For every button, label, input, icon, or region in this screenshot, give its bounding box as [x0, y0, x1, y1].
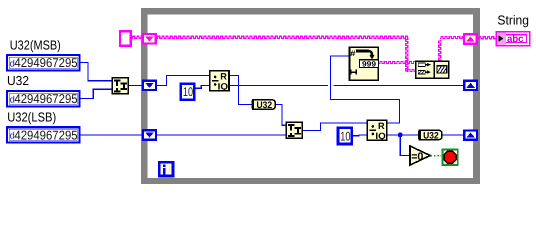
- svg-text:R: R: [378, 121, 385, 131]
- svg-text:=0: =0: [411, 151, 423, 163]
- boolean wire equal-to-zero to stop terminal: [431, 155, 442, 157]
- equal to zero node: [410, 146, 430, 165]
- wire string right shift register to String indicator: [478, 37, 496, 39]
- wire junction down to equal-to-zero input: [400, 135, 410, 156]
- String indicator terminal abc: [496, 32, 529, 46]
- svg-text:U32: U32: [257, 99, 273, 110]
- U32 conversion node 1: [252, 99, 276, 110]
- right shift register U32 low: [464, 130, 477, 139]
- wire string concatenate output up and right to right shift register: [439, 37, 463, 61]
- junction dot on quotient wire: [398, 132, 403, 137]
- svg-text:10: 10: [340, 129, 350, 143]
- constant 10 (first): [181, 84, 195, 100]
- quotient and remainder node 2: [367, 120, 386, 141]
- wire U32 conversion 2 to right shift register 2: [442, 134, 463, 136]
- empty string constant: [120, 31, 131, 45]
- wire quotient remainder 1 remainder output down to U32 conversion 1: [229, 75, 251, 104]
- numeric control U32(MSB) value 4294967295: [7, 55, 79, 70]
- U32 conversion node 2: [418, 130, 442, 141]
- wire left shift register 1 to quotient remainder 1 x input: [157, 75, 209, 85]
- right shift register string (magenta): [464, 34, 477, 43]
- concatenate strings node: [416, 61, 449, 79]
- wire string vertical down to concatenate input 2: [406, 38, 416, 71]
- svg-text:U32: U32: [7, 73, 29, 88]
- svg-text:R: R: [220, 71, 227, 81]
- svg-text:#: #: [350, 49, 356, 58]
- right shift register U32 high: [464, 81, 477, 90]
- iteration terminal i: [159, 162, 173, 176]
- wire string left shift register across top: [157, 36, 409, 38]
- wire U32(MSB) control to join numbers input 1: [81, 63, 112, 81]
- svg-text:4294967295: 4294967295: [14, 128, 77, 142]
- svg-text:U32: U32: [423, 130, 439, 141]
- wire left shift register 2 to join numbers 2 input 2: [157, 134, 285, 136]
- wire U32 conversion 1 to join numbers 2 input 1: [275, 105, 285, 126]
- wire constant 10 2 to quotient remainder 2 y input: [353, 134, 367, 137]
- wire string 999 output to concatenate input 1: [379, 62, 415, 64]
- label U32(LSB): [7, 110, 56, 125]
- svg-text:IQ: IQ: [218, 81, 228, 91]
- number to decimal string node: [350, 47, 379, 80]
- join numbers node 1: [112, 78, 128, 94]
- wire join numbers output to left shift register 1: [129, 85, 142, 87]
- constant 10 (second): [338, 128, 352, 144]
- while loop border: [141, 8, 480, 184]
- label U32: [7, 73, 29, 88]
- label U32(MSB): [10, 37, 61, 52]
- numeric control U32(LSB) value 4294967295: [7, 127, 79, 142]
- svg-text:4294967295: 4294967295: [14, 56, 77, 70]
- svg-text:U32(LSB): U32(LSB): [7, 110, 56, 125]
- wire join numbers 2 output to quotient remainder 2 x input: [303, 123, 367, 131]
- wire quotient remainder 2 remainder output around to number-to-string input: [331, 56, 400, 123]
- join numbers node 2: [286, 122, 302, 138]
- wire U32(LSB) control to left shift register 2: [81, 134, 143, 136]
- left shift register U32 low: [143, 130, 156, 139]
- svg-text:U32(MSB): U32(MSB): [10, 37, 61, 52]
- svg-text:10: 10: [183, 85, 193, 99]
- numeric control U32 value 4294967295: [7, 91, 79, 106]
- stop button terminal: [443, 150, 458, 166]
- quotient and remainder node 1: [210, 71, 229, 92]
- label String: [497, 13, 529, 28]
- svg-text:IQ: IQ: [375, 131, 385, 141]
- svg-text:abc: abc: [507, 34, 524, 45]
- left shift register string (magenta): [143, 34, 156, 43]
- wire U32 control to join numbers input 2: [81, 89, 112, 98]
- left shift register U32 high: [143, 81, 156, 90]
- svg-text:999: 999: [362, 60, 376, 69]
- svg-text:4294967295: 4294967295: [14, 92, 77, 106]
- wire constant 10 to quotient remainder 1 y input: [196, 85, 209, 88]
- wire quotient remainder 2 quotient output to U32 conversion 2: [387, 134, 418, 136]
- svg-text:String: String: [497, 13, 529, 28]
- wire string constant to left shift register: [132, 36, 142, 38]
- wire quotient remainder 1 quotient output to right shift register 1: [229, 84, 463, 86]
